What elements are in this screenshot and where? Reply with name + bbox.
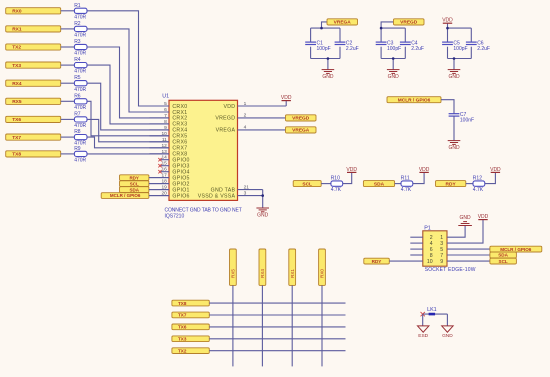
svg-text:GND: GND [448,74,460,80]
svg-text:4.7K: 4.7K [331,187,342,193]
svg-text:2.2uF: 2.2uF [477,46,490,52]
svg-text:VDD: VDD [223,104,235,110]
svg-text:TX3: TX3 [12,63,21,69]
svg-text:MCLR / GPIO6: MCLR / GPIO6 [398,97,431,103]
svg-text:470R: 470R [74,69,86,75]
svg-text:100nF: 100nF [460,118,474,124]
svg-text:TX2: TX2 [12,45,21,51]
svg-text:SCL: SCL [499,259,508,264]
svg-text:470R: 470R [74,123,86,129]
svg-text:10: 10 [427,259,433,265]
svg-text:16: 16 [161,167,167,173]
svg-text:7: 7 [164,113,167,119]
svg-text:VREGD: VREGD [292,116,310,122]
svg-text:TX7: TX7 [12,135,21,141]
svg-text:R11: R11 [401,176,410,182]
svg-text:100pF: 100pF [453,46,467,52]
svg-text:R10: R10 [331,176,340,182]
svg-text:RX1: RX1 [12,27,22,33]
svg-text:8: 8 [164,119,167,125]
svg-text:14: 14 [161,155,167,161]
svg-text:RDY: RDY [129,175,139,180]
svg-text:GND: GND [388,74,400,80]
svg-text:RX4: RX4 [12,81,22,87]
svg-text:VSSD & VSSA: VSSD & VSSA [198,193,236,199]
svg-text:VREGA: VREGA [216,128,236,134]
svg-text:15: 15 [161,161,167,167]
svg-text:MCLR / GPIO6: MCLR / GPIO6 [110,193,141,198]
svg-text:SOCKET EDGE-10W: SOCKET EDGE-10W [425,267,476,273]
svg-text:SDA: SDA [374,181,385,187]
svg-text:7: 7 [440,253,443,259]
svg-text:100pF: 100pF [317,46,331,52]
svg-text:SDA: SDA [129,187,139,192]
svg-text:R4: R4 [74,57,81,63]
svg-text:9: 9 [164,125,167,131]
svg-text:GND: GND [322,74,334,80]
svg-text:VDD: VDD [490,167,501,173]
svg-text:VDD: VDD [478,214,489,220]
svg-text:9: 9 [440,259,443,265]
svg-text:13: 13 [161,149,167,155]
svg-text:SDA: SDA [498,253,508,258]
svg-text:MCLR / GPIO6: MCLR / GPIO6 [500,247,532,252]
svg-text:2.2uF: 2.2uF [346,46,359,52]
svg-text:R8: R8 [74,129,81,135]
svg-text:100pF: 100pF [387,46,401,52]
svg-text:R12: R12 [473,176,482,182]
svg-text:VREGA: VREGA [334,20,352,26]
svg-text:VDD: VDD [281,95,292,101]
svg-text:VREGD: VREGD [400,20,418,26]
svg-text:470R: 470R [74,33,86,39]
svg-text:VDD: VDD [442,18,453,24]
svg-text:RX1: RX1 [290,269,295,278]
svg-text:TX7: TX7 [178,313,187,318]
svg-text:VREGA: VREGA [292,128,310,134]
svg-text:470R: 470R [74,105,86,111]
svg-text:TX3: TX3 [178,337,187,342]
svg-text:12: 12 [161,143,167,149]
svg-text:TX6: TX6 [12,117,21,123]
svg-text:4.7K: 4.7K [401,187,412,193]
svg-text:R5: R5 [74,75,81,81]
svg-text:2.2uF: 2.2uF [411,46,424,52]
svg-text:IQS7210: IQS7210 [165,213,185,219]
svg-text:RX0: RX0 [12,9,22,15]
svg-text:RDY: RDY [372,259,382,264]
svg-text:11: 11 [162,137,167,143]
svg-text:RX5: RX5 [12,99,22,105]
svg-text:GND: GND [460,215,472,221]
svg-text:GND: GND [448,145,460,151]
svg-text:SCL: SCL [302,181,312,187]
svg-text:R3: R3 [74,39,81,45]
svg-text:TX8: TX8 [178,301,187,306]
svg-text:GND: GND [442,333,453,339]
svg-text:8: 8 [430,253,433,259]
svg-text:470R: 470R [74,51,86,57]
svg-text:R6: R6 [74,93,81,99]
svg-text:RX4: RX4 [260,269,265,278]
svg-text:VDD: VDD [346,167,357,173]
svg-text:10: 10 [161,131,167,137]
svg-text:6: 6 [164,107,167,113]
svg-text:RDY: RDY [446,181,457,187]
svg-text:R2: R2 [74,21,81,27]
svg-text:LK1: LK1 [427,307,437,313]
svg-text:470R: 470R [74,158,86,164]
svg-text:R1: R1 [74,3,81,9]
svg-text:P1: P1 [424,226,431,232]
svg-text:GPIO6: GPIO6 [172,193,189,199]
svg-text:GND: GND [257,213,269,219]
svg-text:RX5: RX5 [231,269,236,278]
svg-text:TX2: TX2 [178,348,187,353]
svg-text:R9: R9 [74,146,81,152]
svg-text:470R: 470R [74,14,86,20]
svg-text:SCL: SCL [130,181,139,186]
svg-text:U1: U1 [162,94,169,100]
svg-text:VDD: VDD [419,167,430,173]
svg-text:VREGD: VREGD [215,116,235,122]
svg-text:4.7K: 4.7K [473,187,484,193]
svg-text:RX0: RX0 [320,269,325,278]
svg-text:5: 5 [164,101,167,107]
svg-text:R7: R7 [74,111,81,117]
svg-text:ESD: ESD [418,333,428,339]
svg-text:TX6: TX6 [178,325,187,330]
svg-text:TX8: TX8 [12,152,21,158]
svg-text:470R: 470R [74,87,86,93]
